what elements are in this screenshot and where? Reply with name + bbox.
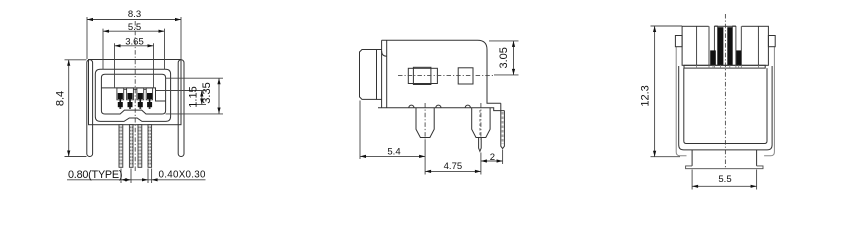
body outline xyxy=(382,40,501,107)
shell outer wall with bottom bump xyxy=(95,69,170,121)
flange/body strip xyxy=(381,40,383,107)
slot top line 1-2 xyxy=(124,88,127,90)
peg2 pin shading xyxy=(479,110,481,136)
comb finger 2 xyxy=(127,88,134,100)
svg-text:12.3: 12.3 xyxy=(640,85,652,106)
upper contact 2 xyxy=(127,93,132,99)
side view horizontal centerline xyxy=(398,74,494,76)
svg-text:5.4: 5.4 xyxy=(387,146,400,157)
svg-text:0.80(TYPE): 0.80(TYPE) xyxy=(68,169,123,181)
svg-text:1.15: 1.15 xyxy=(188,86,200,107)
rear view vertical centerline xyxy=(724,14,726,169)
bottom bump 2 xyxy=(436,105,441,108)
body bottom edge xyxy=(378,108,504,111)
notch opening 1 xyxy=(709,25,715,28)
upper contact 3 xyxy=(138,93,143,99)
dimension 1.15 xyxy=(156,91,207,105)
right side leg strap xyxy=(178,60,184,157)
front view vertical centerline xyxy=(134,21,136,173)
svg-text:3.05: 3.05 xyxy=(498,47,510,68)
dimension 8.3 top xyxy=(87,17,181,59)
svg-text:8.4: 8.4 xyxy=(55,91,67,106)
dimension 3.65 xyxy=(115,43,154,88)
svg-text:5.5: 5.5 xyxy=(718,174,731,185)
dimension 3.35 right xyxy=(166,78,223,114)
svg-text:0.40X0.30: 0.40X0.30 xyxy=(159,170,207,181)
dimension 8.4 left xyxy=(65,60,87,157)
solder pin 2 xyxy=(129,125,133,168)
contact link 1 xyxy=(120,99,122,102)
short contact bar left xyxy=(710,50,716,65)
dimension 2 xyxy=(481,150,503,165)
left leg strap side xyxy=(676,47,686,156)
window hole 1 outer xyxy=(408,68,437,83)
peg2 centerline xyxy=(480,103,482,140)
dimension 4.75 xyxy=(425,153,481,175)
lower contact 1 xyxy=(118,102,123,107)
lower contact 4 xyxy=(147,102,152,107)
mounting peg 2 xyxy=(472,108,490,138)
short contact bar right xyxy=(736,50,741,65)
peg 2 needle pin xyxy=(479,138,482,152)
tall contact bar left xyxy=(718,27,724,65)
dimension 12.3 xyxy=(651,26,683,157)
contact comb top line xyxy=(101,88,165,101)
upper contact 1 xyxy=(118,93,123,99)
slot top line 3-4 xyxy=(144,88,147,90)
tall contact bar right xyxy=(727,27,732,65)
shell top band xyxy=(684,65,765,68)
svg-text:5.5: 5.5 xyxy=(128,22,141,33)
mating flange xyxy=(360,50,377,100)
finger tops xyxy=(714,25,717,27)
peg1 centerline xyxy=(424,103,426,140)
contact link 3 xyxy=(140,99,142,102)
window hole 2 xyxy=(458,68,473,84)
comb finger 1 xyxy=(117,88,124,100)
lower contact 3 xyxy=(138,102,143,107)
right bent pin xyxy=(501,103,505,148)
dimension 3.05 xyxy=(489,41,519,75)
insulator block outline xyxy=(682,26,768,65)
dimension 0.80(TYPE) pin pitch xyxy=(67,169,206,184)
contact tail 2 xyxy=(129,107,131,109)
notch opening 2 xyxy=(736,25,742,28)
svg-text:2: 2 xyxy=(490,152,495,163)
window hole 1 inner xyxy=(413,67,431,84)
solder pin 1 xyxy=(119,125,123,168)
shell inner wall xyxy=(684,68,767,143)
upper contact 4 xyxy=(147,93,152,99)
solder pin 4 xyxy=(148,125,152,168)
bottom bump 3 xyxy=(465,105,470,108)
body top-left inner fillet xyxy=(382,51,387,56)
svg-text:4.75: 4.75 xyxy=(444,161,463,172)
left tab xyxy=(675,36,682,47)
mounting peg 1 xyxy=(416,108,434,138)
shell outer wall xyxy=(679,66,772,150)
snout sides xyxy=(691,150,693,166)
slot top line 2-3 xyxy=(133,88,137,90)
svg-text:3.65: 3.65 xyxy=(125,36,144,47)
dimension 5.5 bottom xyxy=(692,170,757,190)
contact tail 1 xyxy=(119,107,121,109)
contact link 2 xyxy=(129,99,131,102)
comb finger 4 xyxy=(146,88,152,100)
right leg strap side xyxy=(764,47,774,156)
front view mounting plate outline xyxy=(89,60,182,125)
lower contact 2 xyxy=(128,102,133,107)
solder pin 3 xyxy=(138,125,142,168)
svg-text:8.3: 8.3 xyxy=(128,9,141,20)
right pin shading xyxy=(502,112,504,144)
shell inner wall with bottom bump xyxy=(101,74,165,114)
left side leg strap xyxy=(87,60,93,157)
dimension 5.4 xyxy=(360,101,425,160)
dimension 0.40X0.30 pin size xyxy=(142,178,148,181)
dimension 5.5 xyxy=(103,29,165,70)
contact link 4 xyxy=(149,99,151,102)
contact tail 4 xyxy=(149,107,151,109)
right tab xyxy=(768,36,775,47)
comb finger 3 xyxy=(137,88,144,100)
bottom bump 1 xyxy=(409,105,414,108)
band ticks xyxy=(697,65,759,68)
contact tail 3 xyxy=(139,107,141,109)
block divider lines xyxy=(696,26,698,65)
snout lip xyxy=(686,166,763,169)
